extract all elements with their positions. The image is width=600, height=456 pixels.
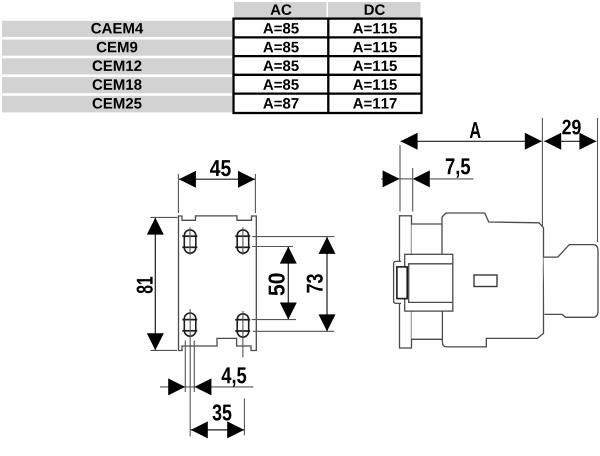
table header cell AC [234, 2, 327, 18]
table label CEM9 [97, 42, 138, 53]
table grid row divider 4 [234, 92, 422, 94]
front block left edge [408, 264, 410, 303]
mounting slot bottom-right [235, 311, 250, 357]
side view DIN rail plate [400, 216, 412, 348]
table value A=115 row3 [353, 61, 397, 71]
table header label DC [365, 4, 385, 15]
table label CEM18 [93, 79, 142, 90]
table row band CEM25 [2, 96, 232, 113]
side view body front face upper [441, 224, 443, 254]
dimension 7,5 [381, 158, 474, 211]
dimension 45 [178, 160, 255, 213]
table value A=85 row1 [263, 23, 298, 34]
dimension 50 [252, 247, 297, 320]
table value A=115 row4 [353, 79, 397, 89]
table row band CEM9 [2, 40, 232, 56]
table grid column divider [327, 19, 329, 113]
table label CEM25 [93, 98, 142, 109]
table label CEM12 [93, 60, 142, 71]
dimension 35 [191, 399, 245, 439]
table header cell DC [328, 2, 421, 18]
dimension 29 [544, 118, 597, 242]
clip inner rectangle [397, 267, 407, 299]
table grid row divider 1 [234, 36, 422, 38]
table row band CAEM4 [2, 21, 232, 37]
table value A=115 row1 [353, 23, 397, 33]
table value A=85 row4 [263, 79, 298, 90]
rail clip [394, 261, 401, 303]
marking window [474, 275, 497, 287]
dimension 81 [137, 217, 178, 350]
table value A=117 row5 [353, 98, 397, 108]
flange inner top edge [408, 263, 453, 265]
bottom-left slot centerline and 35 extension [189, 309, 191, 437]
dimension A [400, 118, 542, 228]
table value A=85 row3 [263, 60, 298, 71]
flange inner bottom edge [408, 301, 453, 303]
table value A=87 row5 [263, 98, 298, 109]
table header label AC [271, 4, 292, 15]
side view body outline [412, 213, 544, 347]
mounting slot top-right [235, 227, 250, 255]
dimension 73 [252, 237, 335, 332]
side view front mounting flange block [405, 254, 453, 311]
mounting slot top-left [182, 227, 197, 255]
side view body front face lower [441, 311, 443, 339]
table grid row divider 3 [234, 74, 422, 76]
table grid outer border [234, 19, 422, 113]
table row band CEM12 [2, 58, 232, 74]
table row band CEM18 [2, 77, 232, 93]
table label CAEM4 [91, 23, 143, 34]
table value A=85 row2 [263, 42, 298, 53]
front view body outline [179, 216, 257, 351]
side view coil cap [544, 245, 599, 318]
table grid row divider 2 [234, 55, 422, 57]
dimension 4,5 [160, 341, 254, 396]
mounting slot bottom-left [182, 313, 197, 336]
table value A=115 row2 [353, 42, 397, 52]
